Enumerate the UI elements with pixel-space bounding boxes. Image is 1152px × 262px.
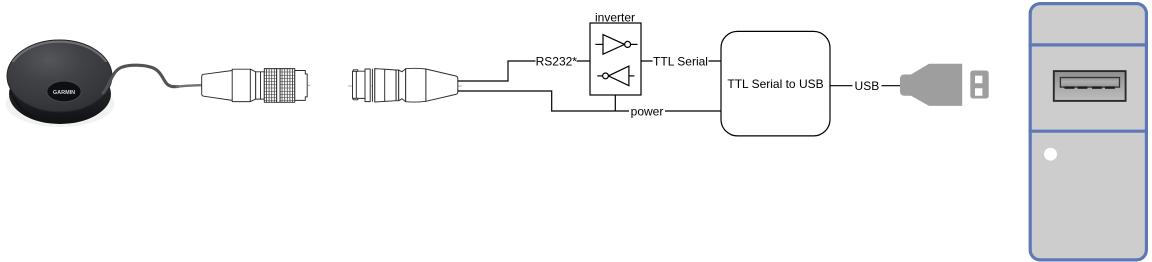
J1 end cap (295, 71, 307, 101)
J2 left bayonet cap (353, 71, 366, 98)
GPS receiver puck side/base (9, 64, 111, 124)
J1 ring band seam (260, 72, 262, 99)
computer tower case (1030, 4, 1146, 260)
cable from puck to connector J1 (103, 65, 178, 93)
J2 ring seam lines (372, 69, 374, 102)
J2 tall ring (365, 69, 370, 102)
wire TTL Serial: inverter to converter (641, 60, 721, 62)
puck top rim highlight (8, 42, 111, 112)
inverter U1 box (590, 23, 641, 95)
tower divider line 1 (1029, 43, 1148, 46)
wire stub: inverter power to power wire junction (614, 95, 616, 111)
GPS receiver puck top face (7, 40, 112, 112)
USB port contacts (1065, 86, 1115, 88)
J2 bayonet notch top (353, 70, 358, 72)
puck rim ridge lines (10, 90, 33, 117)
J1 plain band between knurls (277, 69, 280, 103)
J2 body band 3 (396, 70, 399, 101)
J2 waist (399, 69, 406, 102)
GARMIN label ellipse (47, 81, 81, 102)
J1 knurled band 1 (264, 69, 276, 103)
wire RS232: connector J2 to inverter input (458, 61, 591, 81)
J2 rear body (406, 68, 426, 102)
svg-text:inverter: inverter (595, 11, 635, 25)
connector J2 (panel-side, faces left) (348, 68, 462, 102)
tower power button (1044, 148, 1057, 161)
svg-text:TTL Serial: TTL Serial (653, 54, 708, 68)
cable thin segment near connector J1 (177, 85, 202, 86)
USB plug metal tip with pin holes (970, 71, 988, 99)
label power (629, 105, 665, 117)
wire USB: converter to USB plug (830, 85, 900, 87)
tower divider line 2 (1029, 130, 1148, 133)
NOT gate A (points right) (595, 35, 637, 55)
J1 boot and barrel outline (202, 69, 256, 101)
USB port on tower: outer shell (1054, 71, 1126, 101)
NOT gate B (points left) (597, 66, 634, 86)
svg-text:GARMIN: GARMIN (53, 90, 75, 96)
J2 boot (tapered) (426, 69, 458, 101)
wire power: connector J2 to converter (458, 91, 722, 111)
svg-text:TTL Serial to USB: TTL Serial to USB (727, 77, 823, 91)
USB plug body (900, 64, 962, 106)
svg-text:USB: USB (855, 79, 880, 93)
GPS receiver photo: Garmin puck shadow (6, 81, 114, 127)
J1 cylinder right seam (249, 69, 251, 101)
connector J1 (cable-side, faces right) (200, 69, 310, 103)
J2 bayonet notch bottom (353, 98, 358, 100)
label TTL Serial (653, 55, 709, 67)
svg-text:power: power (631, 104, 664, 118)
J1 knurled band 2 (280, 69, 295, 103)
J2 bayonet cap seam (355, 71, 357, 98)
J2 centerline (348, 85, 462, 87)
label USB (853, 80, 882, 92)
svg-text:RS232*: RS232* (536, 54, 578, 68)
J1 boot/cylinder seam (231, 71, 233, 101)
J2 main body (375, 69, 396, 102)
J1 centerline (200, 84, 310, 86)
converter box: TTL Serial to USB (721, 31, 830, 135)
J1 ring band (256, 72, 265, 99)
USB port slot (1060, 78, 1119, 88)
J2 body seam (384, 69, 386, 101)
label RS232* (536, 55, 577, 67)
